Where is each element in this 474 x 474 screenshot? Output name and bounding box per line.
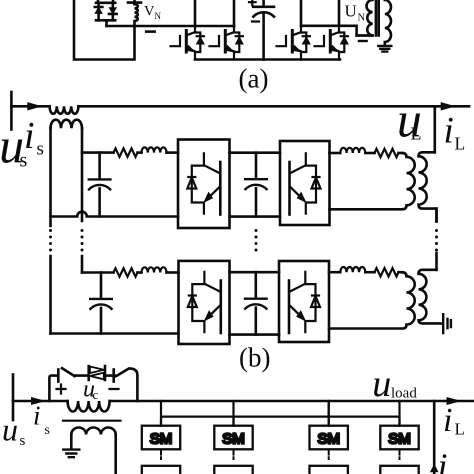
svg-text:s: s <box>37 139 44 160</box>
svg-text:i: i <box>24 115 35 157</box>
svg-text:U: U <box>345 2 357 21</box>
svg-text:s: s <box>20 433 26 449</box>
svg-text:(a): (a) <box>239 64 269 94</box>
svg-text:L: L <box>455 134 466 154</box>
svg-text:i: i <box>443 402 452 439</box>
svg-text:L: L <box>455 420 465 439</box>
svg-text:s: s <box>45 423 50 438</box>
svg-text:L: L <box>411 124 422 144</box>
svg-text:load: load <box>391 386 417 402</box>
svg-text:u: u <box>372 363 391 405</box>
svg-text:(b): (b) <box>239 343 270 373</box>
svg-text:u: u <box>2 412 18 448</box>
svg-text:V: V <box>144 4 155 20</box>
svg-text:N: N <box>358 13 366 24</box>
svg-text:N: N <box>155 11 162 21</box>
svg-text:i: i <box>444 111 454 152</box>
svg-text:i: i <box>33 401 41 431</box>
svg-text:i: i <box>438 446 448 474</box>
svg-text:c: c <box>93 388 99 402</box>
